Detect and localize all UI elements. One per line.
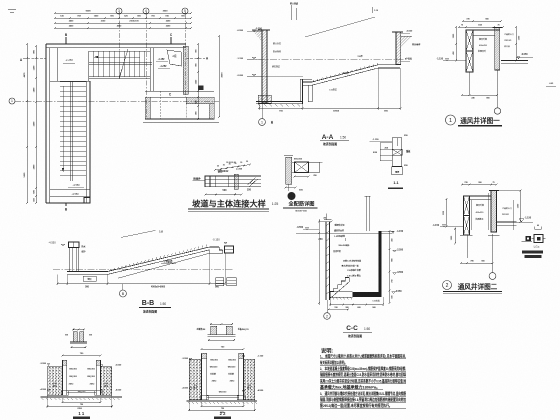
section C-C: right wall top flag (378, 230, 394, 232)
section C-C: right wall (solid) (378, 231, 381, 297)
footing 2-2: top dimension (202, 348, 244, 350)
vent detail 2: label (443, 281, 452, 290)
rebar detail: connecting lines (292, 161, 295, 163)
legend detail: filled box 1 (526, 236, 532, 241)
detail 1.1: left attachment lines (380, 142, 392, 144)
vent detail 2: left lower dim (454, 229, 456, 244)
vent detail 2: lower left line (466, 235, 468, 258)
section C-C: right dimension chain (389, 231, 391, 303)
vent detail 2: top beam (464, 195, 492, 197)
plan: vertical stair handrail (69, 82, 71, 181)
plan: upper-left room (56, 48, 58, 81)
section C-C: left boundary line (318, 219, 320, 305)
vent detail 2: left dimension chain (446, 199, 448, 227)
rebar detail: right box (309, 162, 320, 173)
ramp-connection detail: break mark (248, 178, 256, 186)
section A-A: ramp anti-slip ticks (312, 80, 315, 82)
plan view: axis circle 3 (116, 8, 122, 14)
ramp-connection detail: lower dimension (206, 194, 242, 196)
footing 1-1: dimension row 1 (63, 401, 101, 403)
footing 1-1: base hatch ticks (42, 398, 44, 400)
footing 2-2: trench inner bottom (207, 394, 239, 396)
footing 1-1: top dimension (63, 355, 101, 357)
channel detail 2: top dimension (211, 323, 232, 325)
footing 1-1: dimension row 2 (47, 405, 112, 407)
plan: horizontal stair down-arrow (94, 56, 140, 58)
rebar detail: axis bubble (288, 184, 290, 191)
plan: horizontal stair run treads (88, 51, 90, 77)
ramp-connection detail: left leader (193, 180, 206, 182)
ramp-connection detail: middle column (234, 174, 238, 189)
channel detail 2: right wall (226, 326, 232, 334)
plan: landing bottom band (145, 90, 214, 92)
section B-B: dimension line (58, 283, 226, 285)
vent detail 1: lower left line (469, 72, 471, 95)
section B-B: axis bubble (122, 284, 124, 291)
vent detail 2: bottom dimension (461, 262, 493, 264)
plan: vertical stair down arrow (62, 86, 64, 172)
plan: bottom landing column (84, 198, 90, 204)
footing 2-2: dimension row 1 (202, 405, 244, 407)
section A-A: bottom dimension line (259, 107, 401, 109)
section B-B: center axis line (53, 268, 234, 270)
channel detail 1: right wall (80, 332, 84, 342)
section B-B: pit floor (67, 271, 108, 273)
vent detail 1: floor elevation -0.050 (517, 57, 520, 60)
section A-A: left earth hatch (252, 30, 262, 42)
rebar detail: X box (295, 162, 309, 173)
footing 2-2: left stipple block (189, 359, 201, 400)
section B-B: extension lines (57, 275, 59, 285)
section C-C: axis bubble (327, 300, 329, 313)
plan: bottom wall (46, 202, 90, 204)
plan: outer wall top (46, 43, 186, 45)
plan: dark wall top band (186, 97, 214, 104)
vent detail 2: inner face lines (471, 200, 473, 231)
plan: top dimension row 2 (55, 17, 191, 19)
vent detail 1: bottom dimension (462, 94, 497, 96)
section C-C: left wall (325, 222, 327, 301)
section C-C: right upper wall lines (365, 196, 367, 231)
section C-C: ground line (296, 232, 392, 234)
section A-A: left elevation -0.550 (252, 30, 255, 32)
vent detail 2: floor elevation flag (519, 219, 524, 222)
section C-C: top dimension (319, 221, 332, 223)
footing 1-1: base slab lines (41, 395, 123, 397)
footing 2-2: trench walls (201, 353, 203, 400)
vent detail 1: drop line to bubble (496, 70, 498, 108)
plan: dark wall left pier (145, 97, 150, 119)
plan: top dimension row 1 (55, 12, 191, 14)
ramp-connection detail: sloped dimension line (215, 165, 250, 171)
section B-B: left wall cap (69, 242, 80, 248)
plan: right hatched wall strip (183, 46, 188, 94)
section B-B: ramp slab (108, 247, 210, 272)
plan: top dimension row 3 (55, 22, 191, 24)
sheet corner tick (8, 8, 16, 10)
legend detail: box 2 with core (534, 235, 543, 243)
section A-A: lower ground line (247, 76, 303, 78)
channel detail 1: bottom dimension (71, 346, 85, 348)
section A-A: pit bottom slab (256, 101, 303, 103)
section A-A: note tick 2 (371, 7, 373, 13)
detail 1.1: column section (392, 138, 401, 166)
section C-C: bottom dimension (330, 304, 383, 306)
footing 2-2: dimension row 2 (189, 409, 255, 411)
plan: axis circle 1 and horizontal axis line (9, 98, 15, 104)
section A-A: ramp slab (303, 65, 400, 82)
plan: landing right wall lines (149, 48, 151, 91)
channel detail 1: top dimension (73, 329, 83, 331)
ramp-connection detail: horizontal bars (205, 175, 261, 177)
section A-A: ramp support column (308, 85, 312, 101)
detail 1.1: lower extension box (392, 167, 403, 175)
section C-C: slab hatch ticks (332, 297, 334, 299)
plan: inner corner wall right of vertical stair (85, 81, 87, 203)
section A-A: grade leader line (305, 17, 375, 37)
section B-B: ramp base line (118, 253, 209, 278)
section A-A: right wall (396, 32, 401, 65)
plan: left dimension chain (35, 46, 37, 203)
plan: dark wall right pier (209, 104, 214, 120)
section C-C: step slab underside (330, 282, 349, 299)
vent detail 1: left column (466, 30, 473, 51)
rebar detail: hatched wall strip (286, 157, 292, 184)
channel detail 2: left wall (211, 326, 217, 334)
section B-B: slope leader (121, 230, 156, 237)
vent detail 1: top dimension row 1 (463, 20, 501, 22)
section A-A: pit step (299, 79, 301, 102)
ramp-connection detail: bar verticals (215, 176, 217, 187)
vent detail 1: top beam (466, 29, 500, 31)
section C-C: steps (330, 278, 349, 296)
plan: lower boundary of connection (145, 118, 214, 120)
plan: right dimension chain inner (197, 44, 199, 119)
vent detail 2: right top dimension (497, 190, 521, 192)
section A-A: note tick 1 (290, 5, 292, 20)
footing 2-2: base hatch ticks (188, 402, 190, 404)
plan: horizontal stair break line (119, 49, 128, 79)
plan: stair lower wall band (89, 76, 150, 78)
footing 1-1: trench walls (62, 360, 64, 395)
plan: bottom landing lines (50, 188, 90, 190)
plan view: axis circle 5 (182, 8, 188, 14)
plan: top dimension row 4 (55, 27, 191, 29)
plan: left outer dimension chain (26, 44, 28, 203)
vent detail 2: left column (464, 196, 470, 216)
vent detail 1: right column (495, 28, 500, 71)
section C-C: bottom dimension 2 (329, 309, 348, 311)
vent detail 1: label (446, 115, 456, 125)
footing 1-1: wall top caps (63, 360, 67, 365)
plan: lower boundary line 2 (143, 121, 219, 123)
vent detail 2: middle column (491, 191, 497, 233)
plan: horizontal stair handrail (89, 61, 152, 63)
footing 2-2: wall top caps (202, 353, 207, 358)
section C-C: bottom slab (353, 292, 382, 297)
section B-B: ramp top landing (209, 246, 219, 248)
section A-A: right earth hatch (401, 36, 412, 47)
vent detail 1: left dimension chain (455, 27, 457, 61)
section A-A: ground line (247, 59, 412, 61)
vent detail 2: top dimension row (462, 184, 497, 186)
vent detail 1: floor lines right (501, 60, 528, 62)
plan: landing annotation flag (167, 50, 181, 66)
section B-B: door sill block (225, 246, 234, 253)
vent detail 2: column footing ticks (460, 234, 473, 236)
plan: right outer vertical line (218, 36, 220, 117)
plan: vertical stair treads (60, 81, 86, 83)
detail 1.1: X core (392, 149, 402, 155)
footing 1-1: wall feet (61, 391, 68, 395)
section B-B: right data tables (216, 278, 224, 286)
right edge elevation tick (546, 85, 556, 87)
section A-A: left wall footing (258, 95, 271, 103)
vent detail 1: top dimension row 2 (459, 26, 503, 28)
section A-A: left wall (262, 30, 267, 103)
vent detail 2: drop line to bubble (492, 234, 494, 273)
channel detail 2: bottom dimension (209, 339, 234, 341)
plan: outer wall left (45, 44, 47, 203)
legend detail: dark bars (522, 250, 543, 253)
footing 1-1: left stipple block (47, 367, 62, 395)
section A-A: axis circle (261, 104, 263, 119)
channel detail 1: left wall (73, 332, 77, 342)
channel detail 1: bottom slab (70, 341, 87, 343)
ramp-connection detail: left anchor box (205, 176, 210, 187)
footing 2-2: wall feet (200, 396, 208, 400)
vent detail 2: floor lines (497, 221, 517, 223)
rebar detail: dimension (295, 176, 309, 178)
footing 1-1: trench inner bottom (67, 390, 97, 392)
section B-B: left wall body (69, 248, 71, 272)
plan: corner column block (199, 86, 204, 91)
plan view: axis circle 4 (143, 8, 149, 14)
section C-C: left wall upper extension (325, 214, 327, 220)
legend detail: top dimension (535, 228, 542, 230)
channel detail 2: bottom slab (207, 334, 235, 336)
section B-B: floor under-block (83, 276, 96, 281)
footing 1-1: right stipple block (101, 367, 112, 395)
footing 2-2: base slab lines (187, 399, 257, 401)
vent detail 1: right dimension chain (515, 27, 517, 61)
plan: horizontal stair boundary walls (88, 51, 90, 81)
footing 2-2: right stipple block (244, 359, 255, 400)
section B-B: ramp anti-slip ticks (109, 269, 112, 271)
